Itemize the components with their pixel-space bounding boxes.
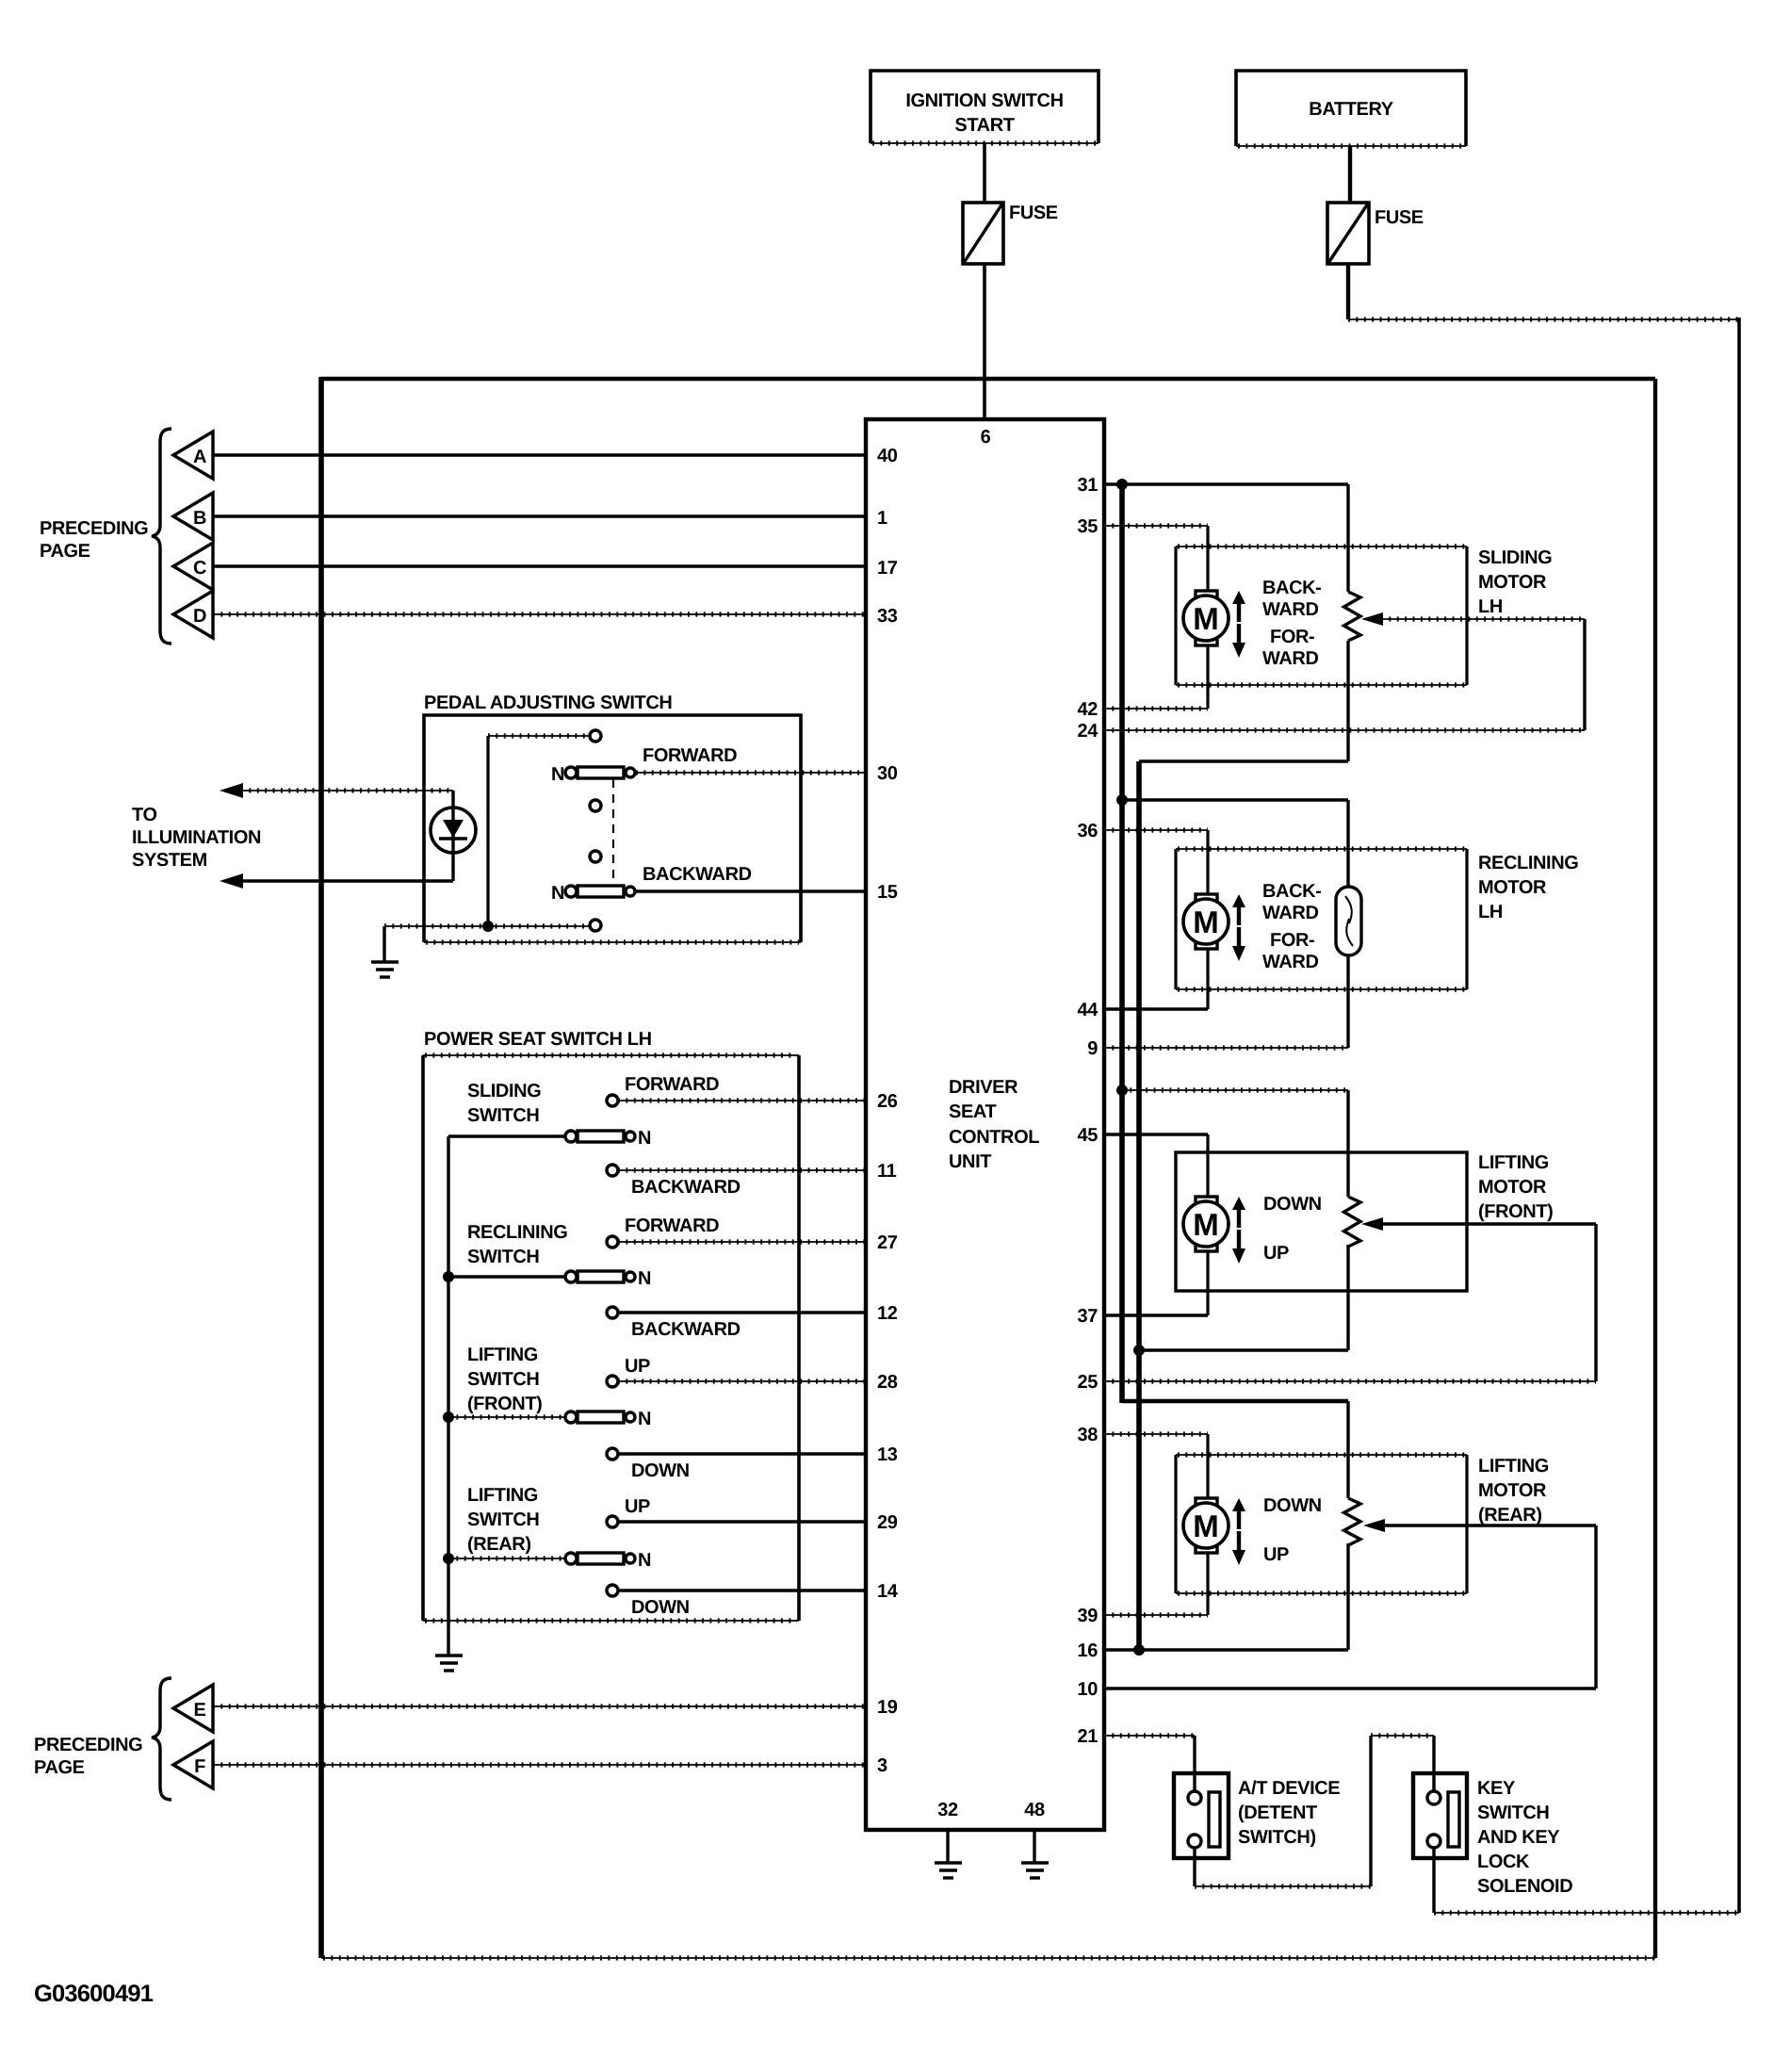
seat switch ground lead [447,1621,449,1655]
svg-text:A: A [193,447,206,467]
lifting rear switch label [467,1485,539,1555]
svg-text:1: 1 [877,508,887,529]
wire pin 36 [1104,830,1208,895]
down up labels M3 [1263,1194,1322,1264]
svg-text:RECLINING: RECLINING [467,1222,567,1243]
wiper arrow R1 [1361,612,1585,730]
wire pin 14 [618,1589,866,1591]
to illumination system label [132,805,261,871]
A/T device label [1238,1778,1340,1848]
A/T device detent switch box [1174,1773,1229,1858]
svg-text:17: 17 [877,558,898,579]
thermal protector reclining [1336,887,1361,955]
sliding motor label [1478,547,1552,617]
svg-text:SYSTEM: SYSTEM [132,850,207,871]
wire C [213,564,866,567]
svg-text:(DETENT: (DETENT [1238,1803,1317,1823]
svg-text:FORWARD: FORWARD [625,1074,719,1095]
wire pin 35 [1104,526,1208,592]
pedal switch common vertical wire [486,736,489,926]
lifting front up contact [607,1356,650,1387]
wire fuse to control unit pin 6 [983,264,986,419]
junction rail A reclining feed [1116,794,1128,806]
svg-text:25: 25 [1078,1372,1099,1393]
svg-text:C: C [193,558,206,579]
svg-text:A/T DEVICE: A/T DEVICE [1238,1778,1340,1799]
potentiometer R2 lifting front [1344,1197,1361,1247]
svg-text:LH: LH [1478,596,1503,617]
svg-text:PAGE: PAGE [34,1757,85,1778]
svg-text:16: 16 [1078,1640,1099,1661]
svg-text:29: 29 [877,1512,898,1533]
svg-text:FUSE: FUSE [1009,203,1058,223]
junction lifting rear N [443,1553,454,1564]
wire pin 11 [618,1167,866,1172]
svg-text:BACK-: BACK- [1262,881,1321,902]
power rail B vertical [1136,761,1142,1650]
svg-text:WARD: WARD [1262,648,1319,669]
svg-text:UP: UP [625,1496,650,1517]
svg-text:DOWN: DOWN [631,1460,690,1481]
brace top group [152,429,171,644]
svg-text:35: 35 [1078,516,1099,537]
junction rail B pin 16 [1133,1644,1145,1656]
svg-text:IGNITION SWITCH: IGNITION SWITCH [905,90,1063,111]
motor M3 direction arrows [1232,1197,1245,1264]
wire 31 down to sliding potentiometer [1346,484,1349,592]
svg-text:44: 44 [1078,1000,1099,1020]
motor M3 lifting front [1183,1197,1229,1251]
control unit label [949,1077,1039,1172]
svg-text:BATTERY: BATTERY [1309,99,1393,120]
svg-text:DOWN: DOWN [1263,1194,1322,1215]
sliding motor LH box [1176,547,1467,685]
svg-text:WARD: WARD [1262,599,1319,620]
wire ignition to fuse [983,143,986,204]
down up labels M4 [1263,1495,1322,1565]
wiper arrow R2 [1361,1217,1596,1381]
lifting rear switch N contact [448,1550,651,1571]
svg-text:(FRONT): (FRONT) [467,1394,542,1414]
lifting front potentiometer bottom return [1139,1245,1348,1350]
potentiometer R1 sliding [1344,592,1361,641]
junction pedal common [482,921,494,932]
pedal contact circle bottom [590,920,601,931]
sliding switch label [467,1081,541,1126]
svg-text:F: F [194,1756,205,1777]
wire pin 13 [618,1452,866,1455]
diode D1 illumination [431,791,476,881]
sliding backward contact [607,1165,741,1198]
backward forward labels M2 [1262,881,1321,972]
wire pin 10 [1104,1687,1596,1689]
wire battery feed horizontal [1348,317,1739,321]
svg-text:MOTOR: MOTOR [1478,1480,1547,1501]
svg-text:PRECEDING: PRECEDING [40,518,148,539]
svg-text:10: 10 [1078,1679,1099,1700]
svg-text:N: N [638,1128,651,1149]
junction rail B lifting front return [1133,1345,1145,1356]
svg-text:SLIDING: SLIDING [1478,547,1552,568]
connector D triangle [173,591,213,638]
svg-text:28: 28 [877,1372,898,1393]
seat switch common vertical wire [447,1136,449,1621]
svg-text:30: 30 [877,763,898,784]
svg-text:BACKWARD: BACKWARD [631,1319,741,1340]
svg-text:ILLUMINATION: ILLUMINATION [132,827,261,848]
power seat switch box [423,1029,799,1621]
rail A to lifting rear potentiometer [1122,1401,1348,1498]
svg-text:14: 14 [877,1581,899,1602]
svg-text:UP: UP [625,1356,650,1377]
connector A triangle [173,432,213,479]
svg-text:WARD: WARD [1262,903,1319,923]
svg-text:45: 45 [1078,1125,1099,1146]
svg-text:40: 40 [877,446,898,466]
svg-text:(REAR): (REAR) [1478,1505,1542,1525]
svg-text:15: 15 [877,882,898,903]
ground pin 48 [1021,1863,1049,1878]
svg-text:FOR-: FOR- [1270,930,1314,951]
pedal switch top feed wire [488,733,589,738]
wire battery fuse down [1346,264,1350,319]
motor M4 lifting rear [1183,1498,1229,1553]
svg-text:DRIVER: DRIVER [949,1077,1018,1098]
pedal switch link dashed [612,779,614,887]
svg-text:27: 27 [877,1232,898,1253]
reclining motor label [1478,853,1578,922]
wire pin 24 [1104,727,1585,732]
svg-text:LH: LH [1478,902,1503,922]
ground seat switch [435,1656,463,1671]
svg-text:39: 39 [1078,1606,1099,1626]
preceding page label top [40,518,148,562]
svg-text:KEY: KEY [1477,1778,1516,1799]
wire battery feed down right side [1737,318,1741,1913]
svg-text:M: M [1193,601,1219,636]
wire E [213,1704,866,1708]
pin 48 ground lead [1033,1830,1035,1862]
svg-text:BACKWARD: BACKWARD [643,864,752,885]
wire rail A to lifting front potentiometer [1122,1090,1348,1197]
svg-text:M: M [1193,1207,1219,1242]
wire pin 9 [1104,955,1348,1048]
svg-text:FUSE: FUSE [1375,207,1424,228]
wire key switch to battery feed [1434,1848,1739,1913]
junction pin 31 rail A [1116,479,1128,490]
svg-text:BACK-: BACK- [1262,578,1321,598]
connector B triangle [173,493,213,540]
lifting motor rear label [1478,1456,1549,1525]
svg-text:RECLINING: RECLINING [1478,853,1578,873]
battery box [1236,71,1466,146]
svg-text:N: N [551,883,564,904]
pedal contact circle mid1 [590,800,601,811]
reclining switch label [467,1222,567,1267]
svg-text:48: 48 [1024,1800,1045,1820]
lifting motor front box [1176,1152,1467,1291]
svg-text:32: 32 [937,1800,958,1820]
pin 32 ground lead [946,1830,949,1862]
lifting rear up contact [607,1496,650,1527]
outer harness box [320,377,1655,1958]
wire rail A to reclining protector [1122,800,1348,887]
reclining forward contact [607,1215,719,1248]
svg-text:SWITCH: SWITCH [467,1509,539,1530]
svg-text:SWITCH: SWITCH [467,1247,539,1267]
svg-text:PAGE: PAGE [40,541,90,562]
potentiometer R3 lifting rear [1344,1498,1361,1545]
wire pin 21 [1104,1736,1195,1791]
svg-text:BACKWARD: BACKWARD [631,1177,741,1198]
svg-text:N: N [638,1268,651,1289]
wire pin 12 [618,1311,866,1313]
svg-text:SEAT: SEAT [949,1101,996,1122]
wire illumination top [241,788,453,792]
svg-text:DOWN: DOWN [631,1597,690,1618]
wire illumination bottom [241,879,453,882]
svg-text:SWITCH: SWITCH [1477,1803,1549,1823]
svg-text:33: 33 [877,606,898,627]
wire pin 45 [1104,1134,1208,1198]
pedal switch ground wire [384,926,589,961]
lifting front switch N contact [448,1409,651,1429]
wire pin 28 [618,1379,866,1383]
svg-text:31: 31 [1078,475,1099,496]
wire pin 29 [618,1520,866,1523]
svg-text:42: 42 [1078,699,1099,720]
svg-text:WARD: WARD [1262,952,1319,972]
svg-text:FOR-: FOR- [1270,627,1314,647]
junction reclining N [443,1271,454,1282]
key switch label [1477,1778,1572,1897]
svg-text:MOTOR: MOTOR [1478,877,1547,898]
wiper arrow R3 [1363,1519,1596,1689]
svg-text:21: 21 [1078,1726,1099,1747]
ignition switch box [871,71,1099,143]
svg-text:SWITCH): SWITCH) [1238,1827,1316,1848]
svg-text:CONTROL: CONTROL [949,1127,1039,1148]
connector E triangle [173,1685,213,1732]
svg-text:LIFTING: LIFTING [1478,1456,1549,1477]
arrow illumination top [220,783,243,798]
wire A [213,453,866,456]
svg-text:UNIT: UNIT [949,1151,991,1172]
svg-text:PEDAL ADJUSTING SWITCH: PEDAL ADJUSTING SWITCH [424,693,672,713]
motor M4 direction arrows [1232,1498,1245,1565]
wire pin 25 [1104,1379,1596,1383]
svg-text:36: 36 [1078,821,1099,841]
pedal contact circle top [590,730,601,742]
lifting front switch label [467,1345,542,1414]
lifting rear down contact [607,1585,690,1618]
svg-text:G03600491: G03600491 [34,1981,154,2007]
connector F triangle [173,1741,213,1788]
lifting front down contact [607,1448,690,1481]
svg-text:N: N [551,764,564,785]
svg-text:MOTOR: MOTOR [1478,1177,1547,1198]
preceding page label bottom [34,1735,142,1778]
lifting motor rear box [1176,1455,1467,1593]
brace bottom group [152,1678,171,1800]
lifting motor front label [1478,1152,1553,1222]
wire pin 39 [1104,1553,1208,1615]
svg-text:DOWN: DOWN [1263,1495,1322,1516]
svg-text:38: 38 [1078,1425,1099,1445]
svg-text:B: B [193,508,206,529]
motor M1 direction arrows [1232,591,1245,658]
svg-text:LOCK: LOCK [1477,1852,1530,1872]
svg-text:LIFTING: LIFTING [467,1485,538,1506]
svg-text:(REAR): (REAR) [467,1534,531,1555]
sliding forward contact [607,1074,719,1106]
svg-text:N: N [638,1550,651,1571]
wire pin 38 [1104,1434,1208,1499]
svg-text:24: 24 [1078,721,1099,742]
connector C triangle [173,543,213,590]
fuse F1 [963,203,1058,264]
junction lifting front N [443,1411,454,1423]
svg-text:START: START [954,115,1014,136]
wire pin 30 [636,770,866,775]
svg-text:AND KEY: AND KEY [1477,1827,1560,1848]
reclining backward contact [607,1307,741,1340]
wire pin 16 [1104,1543,1348,1650]
svg-text:26: 26 [877,1091,898,1112]
reclining motor LH box [1176,849,1467,989]
svg-text:(FRONT): (FRONT) [1478,1201,1553,1222]
wire pin 15 [636,889,866,892]
ground pin 32 [935,1863,962,1878]
backward forward labels M1 [1262,578,1321,669]
wire B [213,514,866,517]
wire pin 27 [618,1239,866,1244]
pedal backward switch [551,864,752,904]
junction rail A lifting front feed [1116,1085,1128,1096]
svg-text:N: N [638,1409,651,1429]
svg-text:FORWARD: FORWARD [643,745,737,766]
svg-text:POWER SEAT SWITCH LH: POWER SEAT SWITCH LH [424,1029,652,1050]
wire pin 42 [1104,645,1208,709]
driver seat control unit box [866,419,1104,1830]
motor M2 direction arrows [1232,894,1245,961]
svg-text:SLIDING: SLIDING [467,1081,541,1101]
wire pin 37 [1104,1251,1208,1315]
svg-text:M: M [1193,1509,1219,1543]
wire D [213,612,866,616]
arrow illumination bottom [220,873,243,889]
svg-text:E: E [194,1700,206,1721]
power rail A vertical [1119,484,1125,1403]
svg-text:UP: UP [1263,1243,1289,1264]
pedal contact circle mid2 [590,851,601,862]
svg-text:LIFTING: LIFTING [467,1345,538,1365]
svg-text:11: 11 [877,1161,897,1182]
pedal adjusting switch box [424,693,801,942]
wire F [213,1762,866,1767]
ground pedal switch [371,962,399,977]
key switch and key lock solenoid box [1413,1773,1467,1858]
fuse F2 [1327,203,1424,264]
pedal forward switch [551,745,737,785]
reclining switch N contact [448,1268,651,1289]
svg-text:SOLENOID: SOLENOID [1477,1876,1572,1897]
svg-text:SWITCH: SWITCH [467,1105,539,1126]
sliding potentiometer bottom return [1139,641,1348,761]
svg-text:37: 37 [1078,1306,1099,1327]
sliding switch N contact [448,1128,651,1149]
wire pin 26 [618,1098,866,1102]
svg-text:9: 9 [1087,1038,1098,1059]
wire A/T to key switch [1195,1736,1434,1886]
svg-text:12: 12 [877,1303,898,1324]
wire pin 44 [1104,949,1208,1009]
svg-text:TO: TO [132,805,157,825]
svg-text:MOTOR: MOTOR [1478,572,1547,593]
svg-text:19: 19 [877,1697,898,1718]
svg-text:3: 3 [877,1755,887,1776]
motor M1 sliding [1183,591,1229,645]
wire battery to fuse [1348,146,1352,204]
svg-text:D: D [193,606,206,627]
svg-text:M: M [1193,905,1219,939]
svg-text:SWITCH: SWITCH [467,1369,539,1390]
svg-text:FORWARD: FORWARD [625,1215,719,1236]
svg-text:LIFTING: LIFTING [1478,1152,1549,1173]
svg-text:13: 13 [877,1444,898,1465]
motor M2 reclining [1183,894,1229,949]
svg-text:PRECEDING: PRECEDING [34,1735,142,1755]
wire pin 31 [1104,482,1348,486]
svg-text:UP: UP [1263,1544,1289,1565]
svg-text:6: 6 [981,427,991,448]
